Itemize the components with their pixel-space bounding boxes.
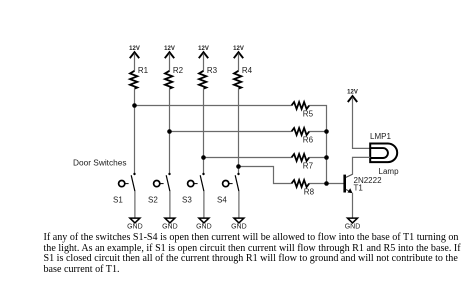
resistor R3 [199,66,218,89]
svg-text:12V: 12V [347,90,358,96]
switch S1 [113,173,136,205]
junction dot net3/col3 [201,155,206,160]
wire: net 1 horizontal (R1 node to R5) [135,105,292,107]
wire: R3 bottom to switch S3 [203,89,205,174]
svg-text:R8: R8 [304,187,315,196]
svg-text:GND: GND [345,224,361,231]
svg-text:S2: S2 [148,195,158,204]
svg-text:R5: R5 [303,109,314,118]
svg-text:LMP1: LMP1 [370,132,391,141]
wire: 12V stem to R2 [169,54,171,71]
svg-text:12V: 12V [164,46,175,52]
svg-text:Lamp: Lamp [379,167,400,176]
junction dot net2/bus [324,129,329,134]
wire: S1 to ground [134,191,136,218]
wire: S2 to ground [169,191,171,218]
svg-text:Door Switches: Door Switches [73,157,127,167]
transistor T1 [345,174,382,193]
wire: 12V stem down to lamp top lead [353,98,371,149]
12V power symbol (R1 branch) [129,46,140,58]
wire: 12V stem to R4 [238,54,240,71]
svg-text:GND: GND [196,224,212,231]
wire: net 2 horizontal (R2 node to R6) [170,131,292,133]
svg-text:12V: 12V [129,46,140,52]
wire: emitter to ground [352,193,354,218]
svg-text:12V: 12V [198,46,209,52]
resistor R7 [292,154,314,170]
svg-text:R3: R3 [207,66,218,75]
svg-text:R6: R6 [303,135,314,144]
svg-text:GND: GND [231,224,247,231]
12V power symbol (R3 branch) [198,46,209,58]
svg-text:T1: T1 [354,184,364,193]
svg-text:S1: S1 [113,195,123,204]
switch S2 [148,173,171,205]
svg-text:12V: 12V [233,46,244,52]
wire: S3 to ground [203,191,205,218]
wire: R1 bottom to switch S1 [134,89,136,174]
switch S4 [217,173,240,205]
switch S3 [182,173,205,205]
svg-text:S3: S3 [182,195,192,204]
12V power symbol (R2 branch) [164,46,175,58]
svg-text:GND: GND [162,224,178,231]
resistor R2 [165,66,184,89]
ground (T1 emitter) [345,218,361,231]
svg-text:GND: GND [127,224,143,231]
12V power symbol (R4 branch) [233,46,244,58]
wire: right vertical bus [326,132,328,184]
12V power symbol (lamp branch) [347,90,358,103]
resistor R4 [234,66,253,89]
junction dot net1/col1 [132,103,137,108]
resistor R6 [292,128,314,144]
description paragraph [44,233,474,275]
wire: net 4 from R8 to base node [309,183,327,185]
resistor R5 [292,102,314,118]
svg-text:R4: R4 [242,66,253,75]
wire: S4 to ground [238,191,240,218]
ground (S2) [162,218,178,231]
wire: net 2 from R6 to bus [309,131,327,133]
wire: net 3 horizontal (R3 node to R7) [204,157,292,159]
svg-text:R1: R1 [138,66,149,75]
wire: 12V stem to R3 [203,54,205,71]
wire: base lead to T1 [327,183,345,185]
wire: R4 bottom to switch S4 [238,89,240,174]
wire: net 4 jog (R4 node to R8) [239,167,292,184]
lamp LMP1 [370,132,399,176]
wire: lamp bottom lead to collector [353,157,371,174]
junction dot net2/col2 [167,129,172,134]
wire: R2 bottom to switch S2 [169,89,171,174]
svg-text:S4: S4 [217,195,227,204]
ground (S3) [196,218,212,231]
resistor R1 [130,66,149,89]
junction dot net3/bus [324,155,329,160]
ground (S4) [231,218,247,231]
wire: 12V stem to R1 [134,54,136,71]
svg-text:R7: R7 [303,161,314,170]
wire: net 3 from R7 to bus [309,157,327,159]
svg-text:R2: R2 [173,66,184,75]
junction dot net4/col4 [236,164,241,169]
wire: net 1 from R5 to bus corner [309,106,327,132]
junction dot base node/bus [324,181,329,186]
resistor R8 [292,180,315,196]
ground (S1) [127,218,143,231]
